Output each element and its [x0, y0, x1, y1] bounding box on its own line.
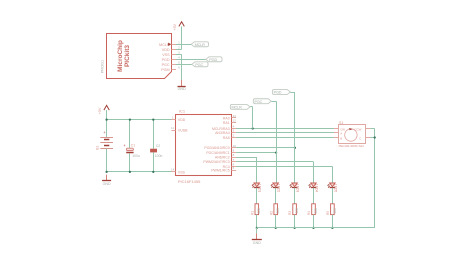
- junction C1 bottom rail: [129, 171, 131, 173]
- net flag MCLR at IC1: [230, 104, 250, 109]
- svg-text:PGC: PGC: [195, 63, 203, 67]
- wire RC4 row to LED5: [236, 166, 332, 183]
- svg-text:R5: R5: [326, 211, 330, 215]
- wire MCLR flag drop: [250, 107, 253, 129]
- svg-text:12: 12: [233, 119, 237, 123]
- junction battery top rail: [105, 118, 107, 120]
- svg-text:GND: GND: [103, 182, 111, 186]
- svg-text:GND: GND: [178, 87, 186, 91]
- LED LED4: [309, 183, 319, 192]
- svg-text:LED4: LED4: [314, 184, 318, 192]
- svg-text:VSS: VSS: [178, 170, 186, 174]
- LED LED5: [328, 183, 338, 192]
- wire PGD pin to flag: [176, 59, 206, 61]
- wire R3 to GND rail: [294, 215, 296, 228]
- wire R2 to GND rail: [275, 215, 277, 228]
- svg-text:AN6/RC2: AN6/RC2: [215, 155, 230, 159]
- LED LED2: [271, 183, 281, 192]
- MCLR function arrow on PROG1 pin 1: [168, 43, 171, 46]
- svg-text:VUSB: VUSB: [178, 129, 188, 133]
- junction C2 bottom rail: [152, 171, 154, 173]
- junction PGC flag on RC1: [275, 151, 277, 153]
- svg-text:+: +: [103, 130, 106, 135]
- svg-text:PWM1/RC5: PWM1/RC5: [211, 168, 230, 172]
- svg-text:B: B: [340, 137, 342, 141]
- wire RA3 row to encoder: [236, 128, 334, 130]
- junction C1 top rail: [129, 118, 131, 120]
- junction R5 rail: [331, 227, 333, 229]
- IC1 left pins VDD VUSB VSS: [171, 118, 188, 174]
- battery B1: [96, 130, 113, 150]
- junction battery bottom rail: [105, 171, 107, 173]
- junction encoder pin C: [374, 136, 376, 138]
- svg-text:AN3/RA4: AN3/RA4: [215, 131, 230, 135]
- wire PGC flag drop to LED2: [271, 101, 276, 183]
- svg-text:100n: 100n: [155, 154, 163, 158]
- svg-text:LED3: LED3: [296, 184, 300, 192]
- svg-text:LED2: LED2: [277, 184, 281, 192]
- svg-text:R2: R2: [269, 211, 273, 215]
- svg-text:RA1: RA1: [223, 121, 230, 125]
- IC1 right pins RA0 RA1 RA3 RA4 RA5 RC0 RC1 RC2 RC3 RC4 RC5: [203, 116, 236, 172]
- svg-text:PGD: PGD: [274, 91, 282, 95]
- svg-text:PGD: PGD: [209, 58, 217, 62]
- svg-text:A: A: [340, 131, 342, 135]
- svg-text:100u: 100u: [132, 154, 140, 158]
- svg-text:14: 14: [171, 168, 175, 172]
- svg-text:VDD: VDD: [162, 48, 170, 52]
- svg-text:MCLR: MCLR: [232, 106, 243, 110]
- wire R4 to GND rail: [313, 215, 315, 228]
- junction C2 top rail: [152, 118, 154, 120]
- junction R4 rail: [312, 227, 314, 229]
- svg-text:C: C: [359, 137, 361, 141]
- encoder pin stubs: [334, 129, 370, 138]
- wire RC2 row to LED1: [236, 157, 257, 183]
- resistor R5 220: [326, 204, 337, 215]
- connector PROG1 PICkit3 programming header: [107, 34, 172, 79]
- net flag PGD at IC1: [272, 90, 290, 95]
- svg-text:PIC16F1455: PIC16F1455: [178, 179, 201, 184]
- svg-text:+: +: [123, 143, 126, 148]
- wire RC3 row to LED4: [236, 162, 313, 183]
- wire PGC pin to flag: [176, 64, 192, 66]
- svg-text:CCW: CCW: [354, 127, 361, 131]
- svg-text:PGM: PGM: [161, 68, 169, 72]
- svg-text:VSS: VSS: [162, 53, 170, 57]
- wire LED4 to R4: [313, 188, 315, 204]
- net flag MCLR at PROG1: [191, 42, 208, 47]
- svg-text:220: 220: [333, 208, 337, 214]
- resistor R3 220: [288, 204, 299, 215]
- svg-text:220: 220: [314, 208, 318, 214]
- wire RA4 row to encoder: [236, 132, 334, 134]
- junction R3 rail: [293, 227, 295, 229]
- value PIC16F1455: [178, 179, 201, 184]
- net flag PGC at PROG1: [192, 62, 208, 67]
- ground GND under LEDs: [252, 233, 262, 244]
- svg-text:B1: B1: [96, 146, 100, 150]
- svg-text:LED1: LED1: [258, 184, 262, 192]
- svg-text:PGD: PGD: [162, 58, 170, 62]
- resistor R4 220: [307, 204, 318, 215]
- wire MCLR pin to flag: [176, 44, 191, 46]
- svg-text:RA0: RA0: [223, 116, 230, 120]
- label PROG1: [100, 60, 104, 73]
- svg-text:PGC: PGC: [255, 100, 263, 104]
- junction R1 rail: [256, 227, 258, 229]
- svg-text:IC1: IC1: [179, 108, 186, 113]
- svg-text:VDD: VDD: [178, 118, 186, 122]
- net flag PGD at PROG1: [206, 57, 222, 62]
- svg-text:220: 220: [276, 208, 280, 214]
- junction PGD flag on RC0: [294, 147, 296, 149]
- svg-text:PICkit3: PICkit3: [124, 45, 131, 67]
- wire LED2 to R2: [275, 188, 277, 204]
- junction MCLR flag on RA3: [252, 127, 254, 129]
- svg-text:+5V: +5V: [98, 107, 102, 114]
- svg-text:PROG1: PROG1: [100, 60, 104, 73]
- wire RA5 row to encoder: [236, 137, 334, 139]
- svg-text:PWM2/AN7/RC3: PWM2/AN7/RC3: [203, 160, 229, 164]
- wire GND bottom rail: [107, 171, 172, 173]
- IC1 right pin numbers: [233, 114, 237, 170]
- capacitor C1 100u polarized: [123, 120, 140, 172]
- wire battery bottom stem: [106, 149, 108, 172]
- PROG1 pin numbers 1-6: [178, 40, 180, 69]
- rotary encoder S1: [339, 121, 366, 148]
- supply +5V above battery: [98, 105, 109, 114]
- svg-text:MicroChip: MicroChip: [117, 40, 124, 72]
- wire LED3 to R3: [294, 188, 296, 204]
- svg-text:R3: R3: [288, 211, 292, 215]
- wire LED1 to R1: [256, 188, 258, 204]
- svg-text:C1: C1: [131, 143, 135, 147]
- svg-text:PGD/AN10/RC0: PGD/AN10/RC0: [204, 146, 229, 150]
- resistor R1 220: [250, 204, 261, 215]
- svg-text:GND: GND: [253, 241, 261, 245]
- resistor R2 220: [269, 204, 280, 215]
- wire R5 to GND rail: [332, 215, 334, 228]
- svg-text:PGC: PGC: [162, 63, 170, 67]
- svg-text:LED5: LED5: [333, 184, 337, 192]
- wire PGD flag drop to LED3: [290, 92, 295, 183]
- svg-text:R1: R1: [250, 211, 254, 215]
- svg-text:10: 10: [233, 144, 237, 148]
- supply +5V at PROG1: [173, 22, 184, 31]
- wire R1 to GND rail: [256, 215, 258, 228]
- PROG1 pin stubs and pin names MCLR VDD VSS PGD PGC PGM: [159, 43, 176, 72]
- svg-text:R4: R4: [307, 211, 311, 215]
- ground GND under PROG1: [178, 80, 186, 91]
- wire +5V top rail: [107, 119, 172, 121]
- svg-text:RA5: RA5: [223, 136, 230, 140]
- svg-text:S1: S1: [339, 121, 343, 125]
- svg-text:+5V: +5V: [173, 23, 177, 30]
- junction R2 rail: [275, 227, 277, 229]
- wire RC0 row: [236, 147, 295, 149]
- wire LED5 to R5: [332, 188, 334, 204]
- net flag PGC at IC1: [253, 99, 271, 104]
- svg-text:PEC11R-4215F-S24: PEC11R-4215F-S24: [339, 144, 364, 148]
- capacitor C2 100n: [150, 120, 162, 172]
- ground GND at battery: [102, 175, 111, 186]
- svg-text:13: 13: [233, 114, 237, 118]
- svg-text:220: 220: [257, 208, 261, 214]
- wire battery top stem: [106, 120, 108, 137]
- wire GND stem: [256, 228, 258, 234]
- svg-text:PGC/AN9/RC1: PGC/AN9/RC1: [206, 151, 229, 155]
- LED LED1: [252, 183, 262, 192]
- IC1 left pin numbers 1 11 14: [171, 115, 175, 171]
- wire RC1 row: [236, 152, 276, 154]
- svg-text:C2: C2: [156, 144, 160, 148]
- LED LED3: [290, 183, 300, 192]
- wire encoder common to GND rail: [370, 129, 375, 228]
- label IC1: [179, 108, 186, 113]
- svg-text:220: 220: [295, 208, 299, 214]
- op-amp IC1 PIC16F1455 microcontroller box: [176, 115, 232, 176]
- wire VSS pin down to GND: [176, 54, 182, 80]
- wire VDD pin to +5V: [176, 26, 182, 49]
- wire LED GND rail: [257, 227, 375, 229]
- svg-text:MCLR: MCLR: [195, 43, 206, 47]
- svg-text:11: 11: [171, 126, 174, 130]
- wire +5V stem above rail: [106, 110, 108, 120]
